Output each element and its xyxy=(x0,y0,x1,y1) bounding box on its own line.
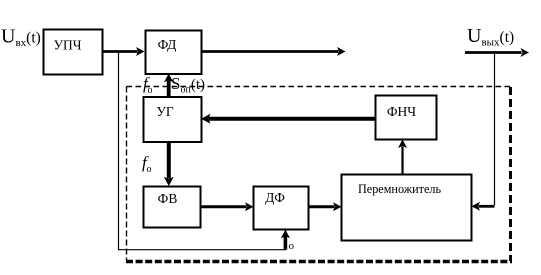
svg-text:о: о xyxy=(148,85,153,96)
block UPCH (УПЧ) xyxy=(44,30,103,75)
wire output arrow xyxy=(465,48,529,57)
wire FD output arrow xyxy=(202,47,346,56)
svg-text:Uвых(t): Uвых(t) xyxy=(467,25,514,49)
wire output tap vertical down xyxy=(494,53,496,205)
wire FV to DF xyxy=(201,202,254,211)
dashed enclosure bottom edge xyxy=(126,260,512,263)
svg-text:Uвх(t): Uвх(t) xyxy=(1,26,41,50)
dashed enclosure top edge xyxy=(127,86,512,88)
svg-text:ДФ: ДФ xyxy=(265,190,285,205)
wire multiplier up to FNCH xyxy=(398,140,407,175)
dashed enclosure right edge xyxy=(509,87,512,261)
block FV (ФВ phase shifter) xyxy=(144,187,201,228)
wire FNCH to UG xyxy=(201,114,376,124)
wire UG down to FV xyxy=(164,142,174,186)
wire output tap into multiplier right xyxy=(472,202,495,211)
block FNCH (ФНЧ low-pass filter) xyxy=(376,96,437,140)
block FD (ФД phase detector) xyxy=(146,31,202,75)
svg-text:УПЧ: УПЧ xyxy=(53,38,81,53)
wire UG to FD (Sop reference) xyxy=(164,74,173,97)
wire UPCH to FD xyxy=(102,47,145,56)
dashed enclosure left edge xyxy=(126,87,128,262)
wire branch node down from UPCH output xyxy=(118,52,120,251)
svg-text:Sоп(t): Sоп(t) xyxy=(171,74,205,96)
wire DF to multiplier xyxy=(309,202,342,211)
block UG (УГ controlled oscillator) xyxy=(144,97,202,142)
block multiplier (Перемножитель) xyxy=(342,175,472,241)
wire input feedback up into DF bottom xyxy=(281,230,290,250)
svg-text:Перемножитель: Перемножитель xyxy=(358,182,441,196)
svg-text:ФНЧ: ФНЧ xyxy=(387,104,416,119)
svg-text:ФВ: ФВ xyxy=(158,191,178,206)
wire feedback bottom horizontal xyxy=(118,249,286,251)
svg-text:о: о xyxy=(289,240,295,252)
svg-text:о: о xyxy=(147,164,152,175)
svg-text:УГ: УГ xyxy=(156,104,174,119)
block DF (ДФ) xyxy=(254,187,309,230)
svg-text:ФД: ФД xyxy=(158,37,177,52)
